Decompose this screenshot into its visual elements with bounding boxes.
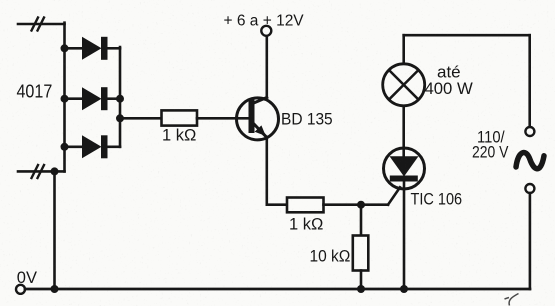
node: junction dot D3 anode	[61, 143, 69, 151]
transistor Q1 base bar	[249, 99, 255, 133]
wire: lower-left input from 4017	[18, 170, 65, 173]
node: junction dot rail / R3	[357, 285, 365, 293]
label AC: 220 V	[472, 144, 508, 162]
resistor R2 1 kOhm	[287, 198, 324, 213]
wire: right vertical lower to rail	[529, 193, 532, 289]
terminal: AC lower (open circle)	[525, 184, 534, 193]
wire: diode D3 row	[65, 146, 121, 149]
wire: left ladder vertical bus	[63, 23, 66, 172]
transistor Q1 collector stroke	[253, 98, 267, 104]
transistor Q1 emitter stroke with arrow	[254, 124, 267, 138]
value label R3: 10 kOhm	[310, 248, 351, 266]
wire: R3 to rail	[360, 271, 363, 290]
node: junction dot cathode bus tap	[116, 114, 124, 122]
label Q1: BD 135	[281, 111, 333, 129]
wire: left drop to 0V rail	[53, 171, 56, 289]
lamp X stroke 2	[389, 70, 418, 99]
wire: bottom 0V rail	[25, 288, 530, 291]
AC sine symbol	[516, 153, 544, 169]
wire: tap to resistor R1	[120, 117, 162, 120]
value label R2: 1 kOhm	[289, 216, 323, 234]
wire: emitter down and across to R2	[267, 137, 287, 205]
wire: lamp to SCR anode	[402, 106, 405, 157]
SCR Q2 circle	[384, 148, 425, 189]
break symbol (//) on lower-left wire	[32, 165, 45, 178]
wire: right ladder vertical (diode cathode bus)	[119, 47, 122, 147]
break symbol (//) on top-left wire	[32, 18, 45, 31]
label supply: + 6 a + 12V	[224, 13, 305, 30]
wire: top-left input from 4017	[18, 23, 65, 26]
node: junction dot rail / left drop	[51, 285, 59, 293]
scan artifact: bottom-right squiggle	[505, 294, 519, 306]
SCR Q2 triangle (anode)	[390, 156, 419, 176]
lamp circle	[383, 64, 425, 106]
node: junction dot rail / SCR cathode	[400, 285, 408, 293]
terminal: 0V (open circle)	[16, 285, 25, 294]
wire: right vertical upper	[528, 35, 531, 127]
label AC: 110/	[477, 129, 505, 147]
SCR Q2 cathode bar	[390, 176, 418, 182]
wire: lamp top	[402, 35, 405, 64]
wire: R2 to gate junction	[324, 203, 389, 206]
terminal: AC upper (open circle)	[525, 127, 534, 136]
node: junction dot gate / R3	[357, 201, 365, 209]
wire: gate lead diagonal to SCR	[388, 187, 400, 204]
node: junction dot D1 anode	[61, 44, 69, 52]
label lamp: 400 W	[425, 79, 473, 98]
terminal: +6 a +12V supply (open circle)	[261, 26, 271, 36]
node: junction dot D2 anode	[61, 95, 69, 103]
paper grain overlay	[0, 0, 1, 1]
lamp X stroke 1	[389, 70, 418, 99]
value label R1: 1 kOhm	[162, 127, 196, 145]
transistor Q1 emitter arrowhead	[255, 125, 266, 136]
label Q2: TIC 106	[411, 190, 463, 208]
wire: R1 to transistor base	[197, 117, 249, 120]
resistor R1 1 kOhm	[162, 110, 198, 125]
wire: collector to supply terminal	[265, 36, 268, 97]
wire: diode D2 row	[65, 97, 121, 100]
diode D1	[82, 37, 108, 60]
diode D2	[82, 87, 108, 110]
transistor Q1 circle	[237, 98, 279, 140]
resistor R3 10 kOhm	[353, 236, 369, 271]
IC label 4017	[17, 80, 53, 101]
label 0V	[17, 269, 37, 287]
diode D3	[82, 135, 108, 158]
wire: junction to resistor R3	[360, 205, 363, 236]
wire: top horizontal to AC	[404, 34, 530, 37]
label lamp: até	[437, 63, 461, 82]
wire: SCR cathode to rail	[403, 182, 406, 290]
node: junction dot D2 cathode	[116, 95, 124, 103]
wire: diode D1 row	[65, 47, 121, 50]
node: junction dot lower-left wire / drop	[51, 167, 59, 175]
